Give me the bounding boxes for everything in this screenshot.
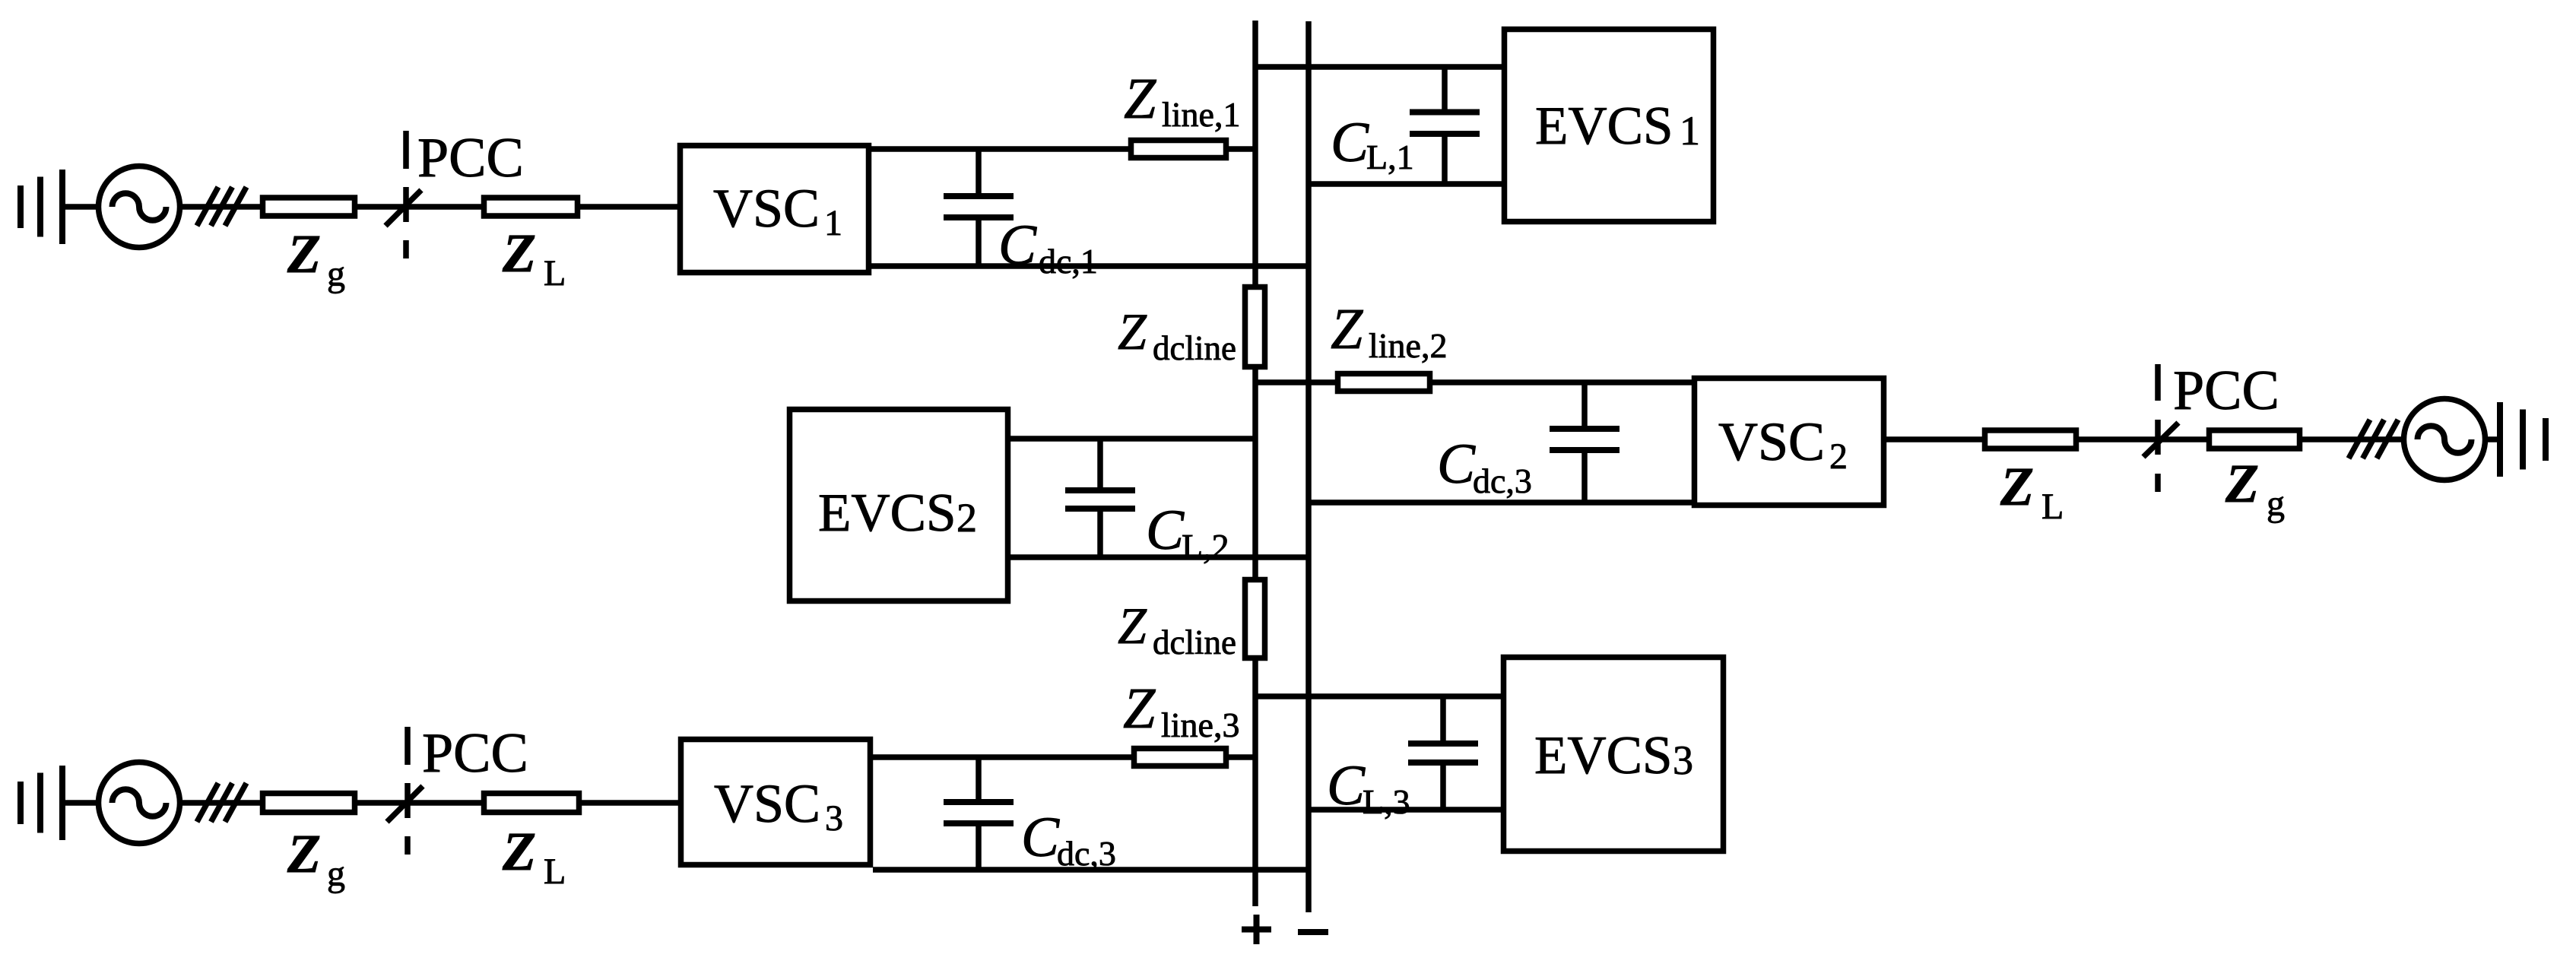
wire ground to AC source V3 [62, 800, 98, 806]
ground (top-left grid ground) [21, 170, 62, 244]
svg-text:Z: Z [2000, 456, 2034, 517]
label Zg (top-left) [287, 224, 345, 294]
svg-text:VSC: VSC [1718, 411, 1825, 472]
wire + bus to Zline2 [1255, 379, 1335, 385]
resistor ZL (bottom-left converter-side impedance) [484, 794, 579, 813]
EVCS3 box [1504, 658, 1724, 851]
svg-text:C: C [1331, 111, 1369, 174]
label ZL (right) [2000, 456, 2064, 527]
wire - bus to EVCS3 bottom [1309, 807, 1501, 813]
wire VSC3 dc+ to Zline3 [873, 754, 1131, 760]
svg-text:L: L [2041, 487, 2064, 527]
svg-text:Z: Z [1118, 597, 1147, 655]
svg-text:L: L [544, 851, 566, 892]
wire + bus to EVCS3 top [1255, 693, 1501, 699]
label Zdcline (upper) [1118, 303, 1236, 367]
label Cdc3 (VSC2 dc-link) [1437, 433, 1532, 500]
svg-text:Z: Z [502, 821, 536, 882]
label Zline2 [1331, 297, 1447, 365]
resistor Zg (bottom-left grid impedance) [263, 794, 355, 813]
wire Zg to AC source (right) [2302, 436, 2404, 442]
label Zg (bottom-left) [287, 823, 345, 894]
label ZL (bottom-left) [502, 821, 566, 892]
svg-text:EVCS: EVCS [1534, 726, 1673, 785]
wire EVCS2 top to + bus [1010, 436, 1255, 442]
svg-text:EVCS: EVCS [818, 484, 956, 543]
wire ground to AC source V1 [62, 204, 98, 210]
resistor Zdcline (lower) [1245, 580, 1265, 658]
resistor Zdcline (upper) [1245, 287, 1265, 367]
svg-text:g: g [327, 254, 345, 294]
resistor Zline2 [1338, 374, 1430, 392]
plus polarity mark [1242, 915, 1271, 944]
label CL3 [1327, 754, 1410, 821]
VSC3 converter box [681, 740, 871, 865]
wire AC source to Zg (three-phase marks crossing) [180, 204, 260, 210]
svg-text:1: 1 [1680, 108, 1700, 154]
wire - bus to VSC2 dc- [1309, 499, 1692, 506]
wire VSC1 dc+ to Zline1 [871, 146, 1128, 152]
wire VSC2 to ZL (right) [1886, 436, 1982, 442]
VSC1 converter box [680, 146, 869, 273]
wire ZL to VSC3 [582, 800, 678, 806]
svg-text:Z: Z [1124, 67, 1156, 131]
EVCS2 box [790, 410, 1008, 601]
EVCS1 box [1505, 30, 1714, 222]
label Zdcline (lower) [1118, 597, 1236, 661]
svg-text:dc,3: dc,3 [1057, 834, 1116, 873]
svg-text:VSC: VSC [713, 178, 820, 239]
label VSC1 [713, 178, 842, 243]
resistor ZL (right converter-side impedance) [1985, 430, 2076, 449]
label EVCS2 [818, 484, 977, 543]
svg-text:Z: Z [1123, 677, 1156, 740]
wire Zg to ZL through breaker (top-left) [357, 204, 481, 210]
wire Zline3 to + bus [1229, 754, 1255, 760]
svg-text:Z: Z [1118, 303, 1147, 360]
svg-text:Z: Z [287, 823, 321, 884]
AC source V1 (grid voltage source, top-left) [99, 166, 180, 248]
svg-text:3: 3 [1673, 737, 1693, 783]
svg-text:g: g [2267, 484, 2285, 524]
label Cdc1 [998, 214, 1098, 281]
label VSC2 [1718, 411, 1848, 477]
resistor Zline3 [1134, 749, 1226, 766]
label EVCS1 [1535, 97, 1700, 156]
wire VSC1 dc- to - bus [871, 263, 1309, 269]
three-phase slash marks (bottom-left) [197, 783, 246, 822]
wire VSC3 dc- to - bus [873, 867, 1309, 873]
AC source V3 (grid voltage source, bottom-left) [99, 763, 180, 844]
svg-text:EVCS: EVCS [1535, 97, 1673, 156]
wire AC source to ground (right) [2486, 436, 2501, 442]
capacitor Cdc3 (VSC3 dc-link) [944, 757, 1014, 870]
svg-text:C: C [1437, 433, 1476, 496]
resistor Zg (top-left grid impedance) [263, 198, 355, 216]
label Zline3 [1123, 677, 1239, 744]
svg-text:1: 1 [824, 203, 842, 243]
resistor Zline1 [1131, 141, 1226, 158]
wire AC source to Zg (bottom-left) [180, 800, 260, 806]
svg-text:line,3: line,3 [1161, 706, 1239, 744]
svg-text:dcline: dcline [1153, 623, 1236, 661]
svg-text:Z: Z [2225, 453, 2259, 514]
svg-text:C: C [1021, 806, 1060, 869]
label Cdc3 (VSC3 dc-link) [1021, 806, 1116, 873]
label VSC3 [714, 773, 843, 839]
svg-text:dc,3: dc,3 [1473, 461, 1532, 500]
wire Zline1 to + bus [1229, 146, 1255, 152]
three-phase slash marks (right) [2349, 420, 2398, 458]
svg-text:VSC: VSC [714, 773, 820, 834]
breaker / PCC dashed cut (top-left) [385, 131, 421, 258]
svg-text:g: g [327, 854, 345, 894]
wire - bus to EVCS1 bottom [1309, 181, 1502, 187]
capacitor CL3 [1408, 696, 1478, 810]
wire ZL to Zg through breaker (right) [2079, 436, 2206, 442]
svg-text:L,1: L,1 [1366, 138, 1414, 176]
VSC2 converter box [1695, 379, 1884, 506]
label Zline1 [1124, 67, 1240, 134]
svg-text:PCC: PCC [2173, 360, 2279, 422]
svg-text:2: 2 [1829, 436, 1848, 477]
resistor Zg (right grid impedance) [2210, 430, 2300, 449]
label CL2 [1146, 499, 1229, 566]
svg-text:L,2: L,2 [1182, 527, 1229, 566]
svg-text:PCC: PCC [417, 127, 524, 189]
svg-text:dc,1: dc,1 [1039, 242, 1098, 281]
svg-text:L: L [544, 253, 566, 293]
node + bus (left dc bus, lower segment) [1252, 661, 1258, 906]
svg-text:Z: Z [1331, 297, 1363, 361]
svg-text:2: 2 [956, 495, 977, 541]
capacitor CL2 [1065, 439, 1135, 557]
wire + bus to EVCS1 top [1255, 64, 1502, 70]
label Zg (right) [2225, 453, 2285, 524]
resistor ZL (top-left converter-side impedance) [484, 198, 578, 216]
svg-text:C: C [1146, 499, 1185, 562]
label EVCS3 [1534, 726, 1693, 785]
node + bus (left dc bus, middle segment) [1252, 369, 1258, 577]
svg-text:Z: Z [287, 224, 321, 284]
svg-text:PCC: PCC [422, 722, 528, 785]
svg-text:3: 3 [825, 798, 843, 839]
breaker / PCC dashed cut (right) [2143, 364, 2178, 492]
wire EVCS2 bottom to - bus [1010, 554, 1309, 560]
minus polarity mark [1298, 929, 1328, 935]
wire Zline2 to VSC2 dc+ [1432, 379, 1692, 385]
svg-text:line,1: line,1 [1162, 95, 1240, 134]
wire ZL to VSC1 [580, 204, 677, 210]
capacitor Cdc1 [944, 149, 1014, 266]
AC source V2 (grid voltage source, right) [2404, 399, 2486, 480]
label CL1 [1331, 111, 1414, 176]
breaker / PCC dashed cut (bottom-left) [387, 727, 423, 855]
node + bus (left dc bus, upper segment) [1252, 21, 1258, 284]
svg-text:dcline: dcline [1153, 329, 1236, 367]
svg-text:L,3: L,3 [1363, 782, 1410, 821]
svg-text:C: C [1327, 754, 1366, 817]
svg-text:C: C [998, 214, 1037, 277]
ground (right grid ground) [2500, 402, 2546, 477]
three-phase slash marks (top-left) [197, 187, 246, 226]
svg-text:line,2: line,2 [1369, 326, 1447, 365]
wire Zg to ZL through breaker (bottom-left) [357, 800, 481, 806]
capacitor Cdc3 (VSC2 dc-link) [1550, 382, 1620, 503]
node - bus (right dc bus) [1305, 21, 1312, 912]
capacitor CL1 [1410, 67, 1480, 184]
label ZL (top-left) [502, 223, 566, 293]
svg-text:Z: Z [502, 223, 536, 284]
ground (bottom-left grid ground) [21, 766, 62, 840]
